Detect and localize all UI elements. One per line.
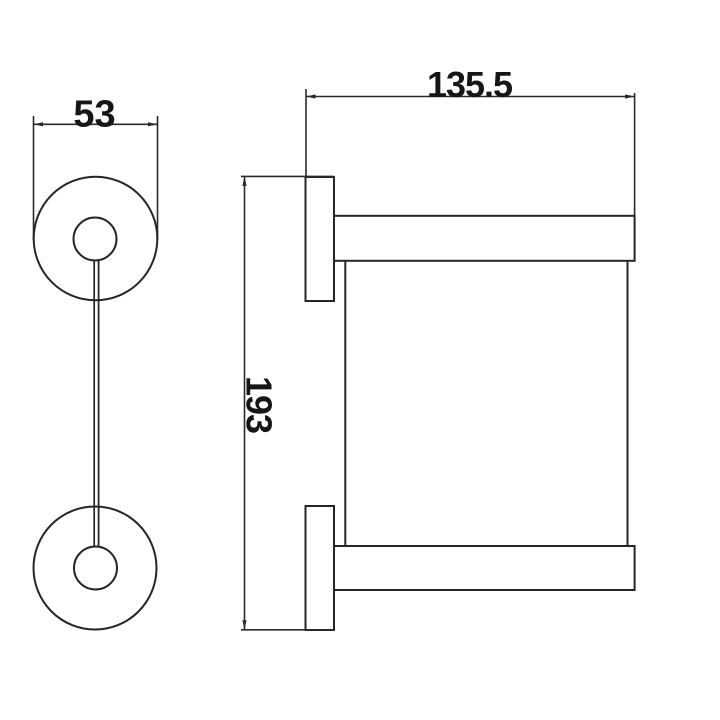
svg-text:193: 193 xyxy=(239,376,280,433)
svg-text:53: 53 xyxy=(73,94,115,136)
dimension 53: extension line left xyxy=(33,116,35,240)
dimension 193: extension line top xyxy=(241,175,334,177)
top rosette inner circle xyxy=(74,218,117,261)
dimension 193: top arrowhead xyxy=(242,176,246,186)
dimension 135.5: extension line left xyxy=(305,89,307,177)
wall plate bottom bracket xyxy=(306,506,335,630)
dimension 53: left arrowhead xyxy=(34,122,44,126)
dimension 53: value label xyxy=(73,94,115,136)
dimension 135.5: value label xyxy=(427,64,513,105)
tumbler cup right edge xyxy=(627,261,629,546)
bottom rosette inner circle xyxy=(74,547,117,590)
dimension 193: value label (rotated) xyxy=(239,376,280,433)
dimension 193: extension line bottom xyxy=(241,629,334,631)
connecting bar right edge xyxy=(98,261,100,547)
top rosette outer circle xyxy=(34,177,158,301)
dimension 135.5: extension line right xyxy=(634,93,636,216)
connecting bar left edge xyxy=(93,261,95,547)
dimension 193: dimension line xyxy=(244,176,246,629)
svg-text:135.5: 135.5 xyxy=(427,64,513,105)
dimension 53: dimension line xyxy=(34,123,158,125)
dimension 135.5: dimension line xyxy=(306,96,635,98)
tumbler cup left edge xyxy=(344,261,346,546)
upper holder arm xyxy=(334,216,635,261)
dimension 53: extension line right xyxy=(157,116,159,240)
dimension 135.5: left arrowhead xyxy=(306,94,316,98)
dimension 53: right arrowhead xyxy=(148,122,158,126)
lower holder arm xyxy=(334,546,635,590)
wall plate top bracket xyxy=(306,177,335,301)
dimension 135.5: right arrowhead xyxy=(625,94,635,98)
dimension 193: bottom arrowhead xyxy=(242,620,246,630)
bottom rosette outer circle xyxy=(34,507,157,630)
